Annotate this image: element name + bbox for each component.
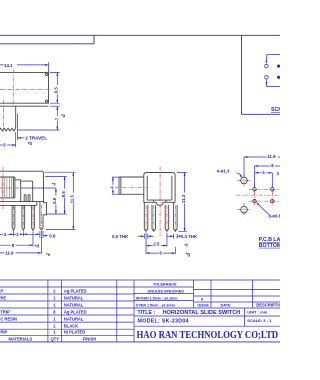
svg-text:NATURAL: NATURAL <box>64 316 84 321</box>
svg-text:TITLE :: TITLE : <box>138 310 156 316</box>
svg-text:WITHIN 1.5mm : ±0.1mm: WITHIN 1.5mm : ±0.1mm <box>136 296 178 300</box>
svg-text:*g: *g <box>186 252 191 257</box>
svg-text:11.9: 11.9 <box>5 251 14 256</box>
svg-text:8.6: 8.6 <box>61 191 66 198</box>
svg-text:0.4 THK: 0.4 THK <box>181 234 198 239</box>
svg-text:C RESIN: C RESIN <box>0 316 17 321</box>
svg-text:OVER 1.5mm : ±0.2mm: OVER 1.5mm : ±0.2mm <box>136 303 175 307</box>
svg-text:*c: *c <box>52 181 57 186</box>
svg-text:HORIZONTAL SLIDE SWITCH: HORIZONTAL SLIDE SWITCH <box>163 310 241 316</box>
svg-text:0.5 THK: 0.5 THK <box>112 234 129 239</box>
svg-text:11.5: 11.5 <box>70 195 75 204</box>
svg-text:5.8: 5.8 <box>52 197 57 204</box>
svg-text:*f: *f <box>185 243 189 248</box>
svg-text:UNIT : mm: UNIT : mm <box>247 309 267 314</box>
svg-text:MODEL: SK-23D04: MODEL: SK-23D04 <box>138 319 189 325</box>
svg-text:RE: RE <box>0 296 6 301</box>
svg-text:NATURAL: NATURAL <box>64 296 84 301</box>
svg-text:UNLESS SPECIFIED: UNLESS SPECIFIED <box>148 289 185 293</box>
svg-text:0.9: 0.9 <box>49 233 56 238</box>
svg-text:MATERIALS: MATERIALS <box>9 336 33 341</box>
svg-text:Ag PLATED: Ag PLATED <box>64 289 87 294</box>
svg-text:ISSUE: ISSUE <box>198 304 210 308</box>
svg-text:8-ø0.8: 8-ø0.8 <box>268 214 280 219</box>
svg-text:*a: *a <box>61 113 66 118</box>
svg-text:4-ø1.3: 4-ø1.3 <box>217 169 230 174</box>
svg-text:6.5: 6.5 <box>53 87 58 94</box>
svg-text:FINISH: FINISH <box>83 336 96 341</box>
svg-text:11.9: 11.9 <box>267 154 276 159</box>
svg-text:14.1: 14.1 <box>4 63 13 68</box>
svg-text:SCHEMATIC: SCHEMATIC <box>271 107 280 113</box>
svg-text:Ni PLATED: Ni PLATED <box>64 330 85 335</box>
svg-text:2.5: 2.5 <box>153 241 160 246</box>
svg-text:P: P <box>0 289 3 294</box>
svg-text:SCALE: 3 : 1: SCALE: 3 : 1 <box>247 318 272 323</box>
svg-text:QTY: QTY <box>51 336 60 341</box>
svg-text:TOLERANCE: TOLERANCE <box>153 283 177 287</box>
svg-text:RIP: RIP <box>0 330 7 335</box>
svg-text:2 TRAVEL: 2 TRAVEL <box>25 136 47 141</box>
svg-text:BLACK: BLACK <box>64 323 78 328</box>
svg-text:DESCRIPTION: DESCRIPTION <box>256 303 280 308</box>
svg-text:*e: *e <box>46 252 51 257</box>
svg-text:NATURAL: NATURAL <box>64 303 84 308</box>
svg-text:*d: *d <box>35 244 40 249</box>
svg-text:11.3: 11.3 <box>181 194 186 203</box>
svg-text:BOTTOM VIEW: BOTTOM VIEW <box>259 243 280 249</box>
svg-text:*b: *b <box>28 141 33 146</box>
svg-text:TRIP: TRIP <box>0 310 10 315</box>
svg-text:DATE: DATE <box>221 304 232 308</box>
svg-text:HAO RAN TECHNOLOGY CO;LTD: HAO RAN TECHNOLOGY CO;LTD <box>137 330 279 341</box>
svg-text:Ag PLATED: Ag PLATED <box>64 310 87 315</box>
svg-text:A: A <box>201 298 204 302</box>
